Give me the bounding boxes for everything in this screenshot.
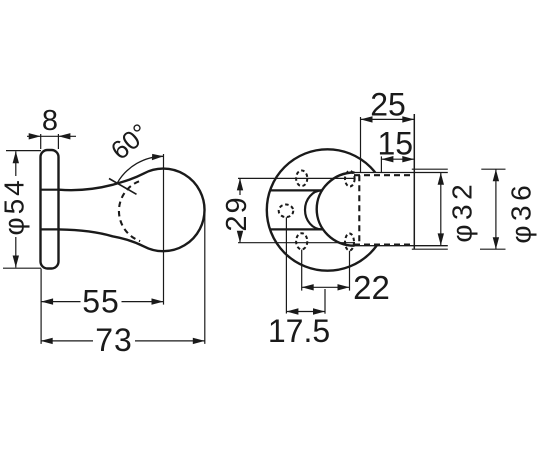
svg-text:8: 8 [42,105,58,137]
svg-text:15: 15 [378,126,414,162]
dimension 73 line and arrows [41,338,205,344]
knob neck and ball outline [59,169,205,252]
dimension 29 line and arrows [237,178,243,242]
dimension 22 line and arrows [302,284,350,290]
socket right edge line [413,114,415,249]
knob wall plate (side) [41,150,59,269]
svg-text:55: 55 [82,284,120,320]
svg-text:22: 22 [353,269,390,306]
socket bottom edge / phi32 extension [355,245,448,247]
right tangent extension line [204,210,206,344]
60 degree tangent tick [109,179,137,195]
dimension 15 line and arrows [381,156,414,162]
mounting flange circle [267,149,388,270]
neck dome arc [305,190,322,229]
svg-text:25: 25 [370,87,406,123]
phi54 dimension line and arrows [13,151,19,267]
hidden neck-ball intersection dashed arc [119,181,140,241]
neck silhouette line top [270,189,323,191]
25 left extension line [360,117,362,173]
neck root line top [41,189,60,191]
socket body white fill [317,173,415,246]
center extension line (ball axis) [163,154,165,305]
svg-text:φ36: φ36 [506,181,537,244]
dimension 55 line and arrows [41,298,163,304]
neck silhouette line bottom [270,228,323,230]
svg-text:17.5: 17.5 [268,313,330,349]
17.5 right extension line [324,289,326,314]
hidden tube end dashed vertical [358,175,360,244]
hidden tube dashed bottom [354,243,414,245]
bottom right hole stem extension [349,251,351,291]
middle screw hole dashed [279,205,294,218]
middle hole stem extension [285,217,287,313]
top left screw hole dashed [296,171,307,187]
bottom left screw hole dashed [296,233,307,249]
phi36 extension lines [412,169,506,249]
dimension 17.5 line and arrows [286,308,325,314]
svg-text:φ32: φ32 [447,180,478,243]
15 left extension line [380,156,382,172]
60 degree dimension arc [117,156,163,183]
plate-left extension line down [40,269,42,344]
svg-text:29: 29 [221,195,253,231]
svg-text:φ54: φ54 [0,177,30,235]
neck root line bottom [41,228,60,230]
phi36 dimension line and arrows [493,169,499,249]
dimension 8 line and arrows [27,133,76,139]
phi54 extension lines [6,150,41,152]
bottom right screw hole dashed [345,234,354,251]
29 extension line bottom [238,242,355,244]
hidden tube dashed top [354,174,414,176]
bottom left hole stem extension [301,250,303,291]
svg-text:73: 73 [95,322,133,358]
socket top edge / phi32 extension [355,172,448,174]
top right screw hole dashed [345,171,355,187]
60 degree arrowhead [152,154,164,160]
phi32 dimension line and arrows [438,173,444,246]
dimension 8 extension lines [40,134,42,149]
socket cap arc [317,173,355,246]
29 extension line top [238,177,355,179]
dimension 25 line and arrows [361,116,415,122]
